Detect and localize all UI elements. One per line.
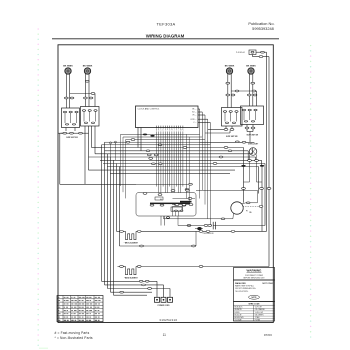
svg-text:BU —: BU — — [192, 112, 197, 114]
svg-text:SURF UNIT SW: SURF UNIT SW — [226, 136, 238, 138]
svg-text:E: E — [165, 130, 166, 132]
svg-text:31625A310: 31625A310 — [159, 318, 177, 322]
svg-text:SURF UNIT SW: SURF UNIT SW — [247, 135, 259, 137]
svg-text:WIRING DIAGRAM: WIRING DIAGRAM — [146, 33, 185, 38]
svg-text:POWER CORD: POWER CORD — [158, 305, 171, 307]
svg-text:BK W/BK: BK W/BK — [246, 66, 256, 68]
svg-text:N: N — [182, 130, 183, 132]
svg-text:GY/W —: GY/W — — [190, 119, 197, 121]
svg-text:BK —: BK — — [192, 109, 197, 111]
svg-text:WASH RED: WASH RED — [235, 282, 246, 285]
svg-text:# = Fast-moving Parts: # = Fast-moving Parts — [55, 331, 90, 335]
svg-text:H: H — [171, 130, 172, 132]
svg-text:CLOCK AND CONTROL: CLOCK AND CONTROL — [138, 107, 161, 110]
svg-text:BK W/BK: BK W/BK — [83, 66, 93, 68]
svg-text:P-PINK: P-PINK — [255, 320, 261, 322]
svg-text:C: C — [160, 130, 161, 132]
svg-text:* = Non-Illustrated Parts: * = Non-Illustrated Parts — [55, 336, 93, 340]
svg-text:NOT COLD: NOT COLD — [263, 283, 274, 285]
svg-text:5995393248: 5995393248 — [252, 26, 274, 31]
svg-text:F: F — [167, 130, 168, 132]
svg-text:WARNING: WARNING — [247, 269, 263, 273]
svg-text:BK W/BK: BK W/BK — [63, 66, 73, 68]
svg-text:11: 11 — [163, 333, 167, 337]
svg-text:SURF UNIT SW: SURF UNIT SW — [66, 137, 78, 139]
svg-text:BK: BK — [160, 199, 162, 201]
svg-text:TEF303A: TEF303A — [157, 21, 176, 26]
svg-text:G: G — [169, 130, 170, 132]
svg-text:YELLOW STRIPE.: YELLOW STRIPE. — [235, 291, 249, 293]
svg-text:K: K — [176, 130, 177, 132]
svg-text:P-20105-01: P-20105-01 — [236, 52, 245, 54]
svg-text:BEFORE SERVICING UNIT: BEFORE SERVICING UNIT — [243, 277, 264, 279]
svg-text:07/03: 07/03 — [264, 333, 272, 337]
svg-text:D: D — [163, 130, 164, 132]
svg-text:OVEN LIGHT: OVEN LIGHT — [248, 144, 259, 146]
svg-text:BK W/BK: BK W/BK — [225, 66, 235, 68]
svg-text:NOTE: NOTE — [252, 297, 258, 299]
svg-text:OVEN SENSOR: OVEN SENSOR — [202, 233, 214, 235]
svg-text:OR —: OR — — [192, 115, 197, 117]
svg-text:V —: V — — [193, 122, 197, 124]
svg-text:B: B — [158, 130, 159, 132]
svg-text:* BROIL ELEMENT: * BROIL ELEMENT — [124, 243, 138, 245]
